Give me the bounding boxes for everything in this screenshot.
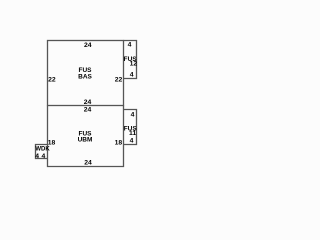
svg-text:12: 12 <box>130 61 138 68</box>
wood deck outline (WDK) <box>36 145 48 159</box>
svg-text:4: 4 <box>42 153 46 160</box>
svg-text:4: 4 <box>131 111 135 118</box>
svg-text:4: 4 <box>130 138 134 145</box>
svg-text:4: 4 <box>128 42 132 49</box>
svg-text:4: 4 <box>130 71 134 78</box>
svg-text:WDK: WDK <box>35 147 50 153</box>
svg-text:24: 24 <box>84 106 92 113</box>
svg-text:18: 18 <box>48 139 56 146</box>
lower building section outline (FUS UBM) <box>48 106 124 167</box>
svg-text:11: 11 <box>129 130 136 137</box>
svg-text:BAS: BAS <box>78 73 92 80</box>
lower right small attachment outline (FUS 4x11) <box>124 110 137 145</box>
svg-text:24: 24 <box>84 42 92 49</box>
svg-text:UBM: UBM <box>78 137 93 144</box>
svg-text:22: 22 <box>48 77 56 84</box>
svg-text:4: 4 <box>35 153 39 160</box>
svg-text:18: 18 <box>115 140 123 147</box>
svg-text:22: 22 <box>115 76 123 83</box>
svg-text:24: 24 <box>84 160 92 167</box>
upper building section outline (FUS BAS) <box>48 41 124 106</box>
upper right small attachment outline (FUS 4x12) <box>124 41 137 79</box>
svg-text:24: 24 <box>84 99 92 106</box>
